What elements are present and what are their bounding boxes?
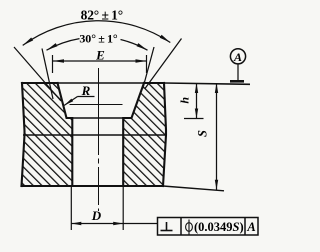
svg-text:82° ± 1°: 82° ± 1° bbox=[81, 8, 123, 23]
svg-text:h: h bbox=[178, 97, 192, 104]
svg-text:30° ± 1°: 30° ± 1° bbox=[79, 31, 117, 45]
svg-text:S: S bbox=[195, 130, 209, 137]
svg-text:(0.0349S): (0.0349S) bbox=[194, 220, 244, 234]
svg-text:A: A bbox=[233, 50, 242, 64]
svg-text:R: R bbox=[81, 83, 91, 98]
svg-text:D: D bbox=[91, 208, 102, 223]
svg-text:E: E bbox=[95, 47, 105, 62]
svg-text:A: A bbox=[246, 220, 255, 234]
